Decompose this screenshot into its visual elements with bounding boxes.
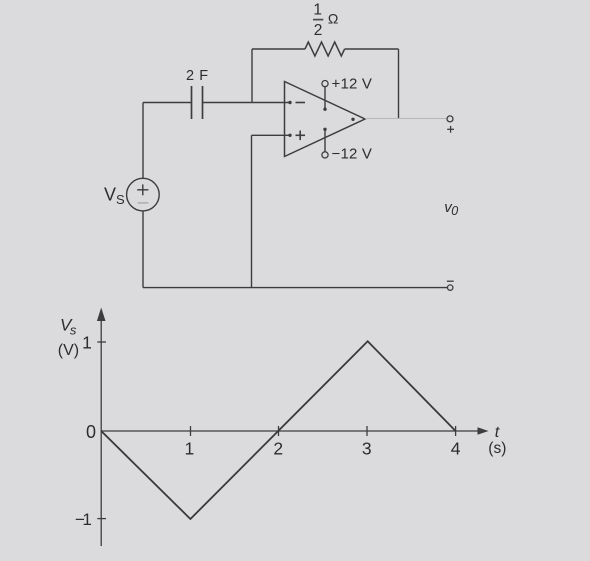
svg-text:1: 1: [82, 333, 92, 353]
wire bottom rail: [143, 287, 448, 289]
source minus polarity mark: [138, 202, 149, 204]
svg-text:t: t: [495, 424, 500, 441]
y-axis arrowhead: [97, 308, 106, 322]
op-amp plus sign: [296, 131, 306, 141]
wire output faint: [365, 118, 447, 120]
supply +12V terminal pin: [322, 81, 328, 111]
wire input left (Vs to capacitor): [143, 102, 192, 104]
node inverting input dot: [288, 101, 291, 104]
wire feedback top right: [345, 48, 399, 50]
wire feedback right vertical: [398, 49, 400, 119]
svg-text:2: 2: [273, 439, 283, 459]
source plus polarity mark: [137, 184, 148, 195]
node noninverting input dot: [288, 134, 291, 137]
svg-text:3: 3: [362, 439, 372, 459]
resistor R (1/2 ohm): [305, 42, 345, 56]
tick x 3: [366, 426, 368, 436]
tick y +1: [97, 341, 106, 343]
wire noninverting input: [252, 134, 291, 136]
terminal output minus: [447, 281, 454, 290]
wire feedback left vertical: [251, 49, 253, 103]
tick x 2: [278, 426, 280, 436]
supply -12V terminal pin: [322, 128, 328, 158]
wire left vertical upper: [142, 103, 144, 179]
svg-text:−1: −1: [75, 510, 91, 529]
tick y -1: [97, 518, 106, 520]
waveform Vs triangle wave: [101, 341, 455, 519]
x-axis: [101, 430, 479, 432]
svg-text:+12 V: +12 V: [332, 76, 373, 93]
svg-text:(s): (s): [488, 440, 506, 457]
y-axis: [100, 315, 102, 546]
svg-text:4: 4: [451, 439, 461, 459]
svg-text:0: 0: [86, 422, 96, 442]
terminal output plus: [447, 116, 454, 133]
svg-text:−12 V: −12 V: [332, 146, 373, 163]
x-axis arrowhead: [478, 427, 489, 435]
op-amp minus sign: [296, 102, 306, 104]
voltage source VS body: [127, 178, 160, 211]
op-amp U1: [285, 82, 366, 157]
wire capacitor to inverting input: [203, 102, 291, 104]
svg-text:2: 2: [314, 22, 323, 39]
wire left vertical lower: [142, 211, 144, 288]
svg-text:1: 1: [185, 439, 195, 459]
wire feedback top left: [252, 48, 305, 50]
svg-text:Ω: Ω: [328, 11, 338, 27]
svg-text:1: 1: [313, 2, 322, 19]
svg-text:(V): (V): [58, 342, 79, 359]
tick x 1: [190, 426, 192, 436]
node output dot: [351, 118, 354, 121]
capacitor C (2 F): [192, 86, 203, 119]
wire noninverting down vertical: [251, 135, 253, 287]
label 1/2 ohm value: [313, 2, 338, 39]
svg-text:2 F: 2 F: [186, 68, 209, 84]
tick x 4: [455, 426, 457, 436]
